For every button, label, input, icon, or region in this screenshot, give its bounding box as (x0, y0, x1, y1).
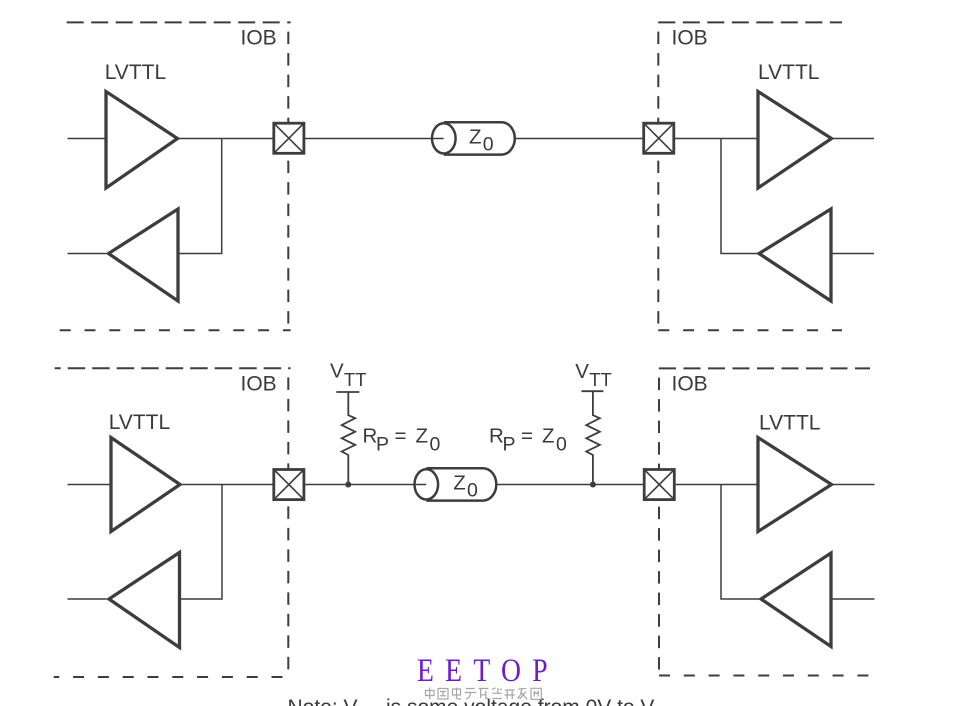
svg-text:EETOP: EETOP (417, 652, 559, 689)
